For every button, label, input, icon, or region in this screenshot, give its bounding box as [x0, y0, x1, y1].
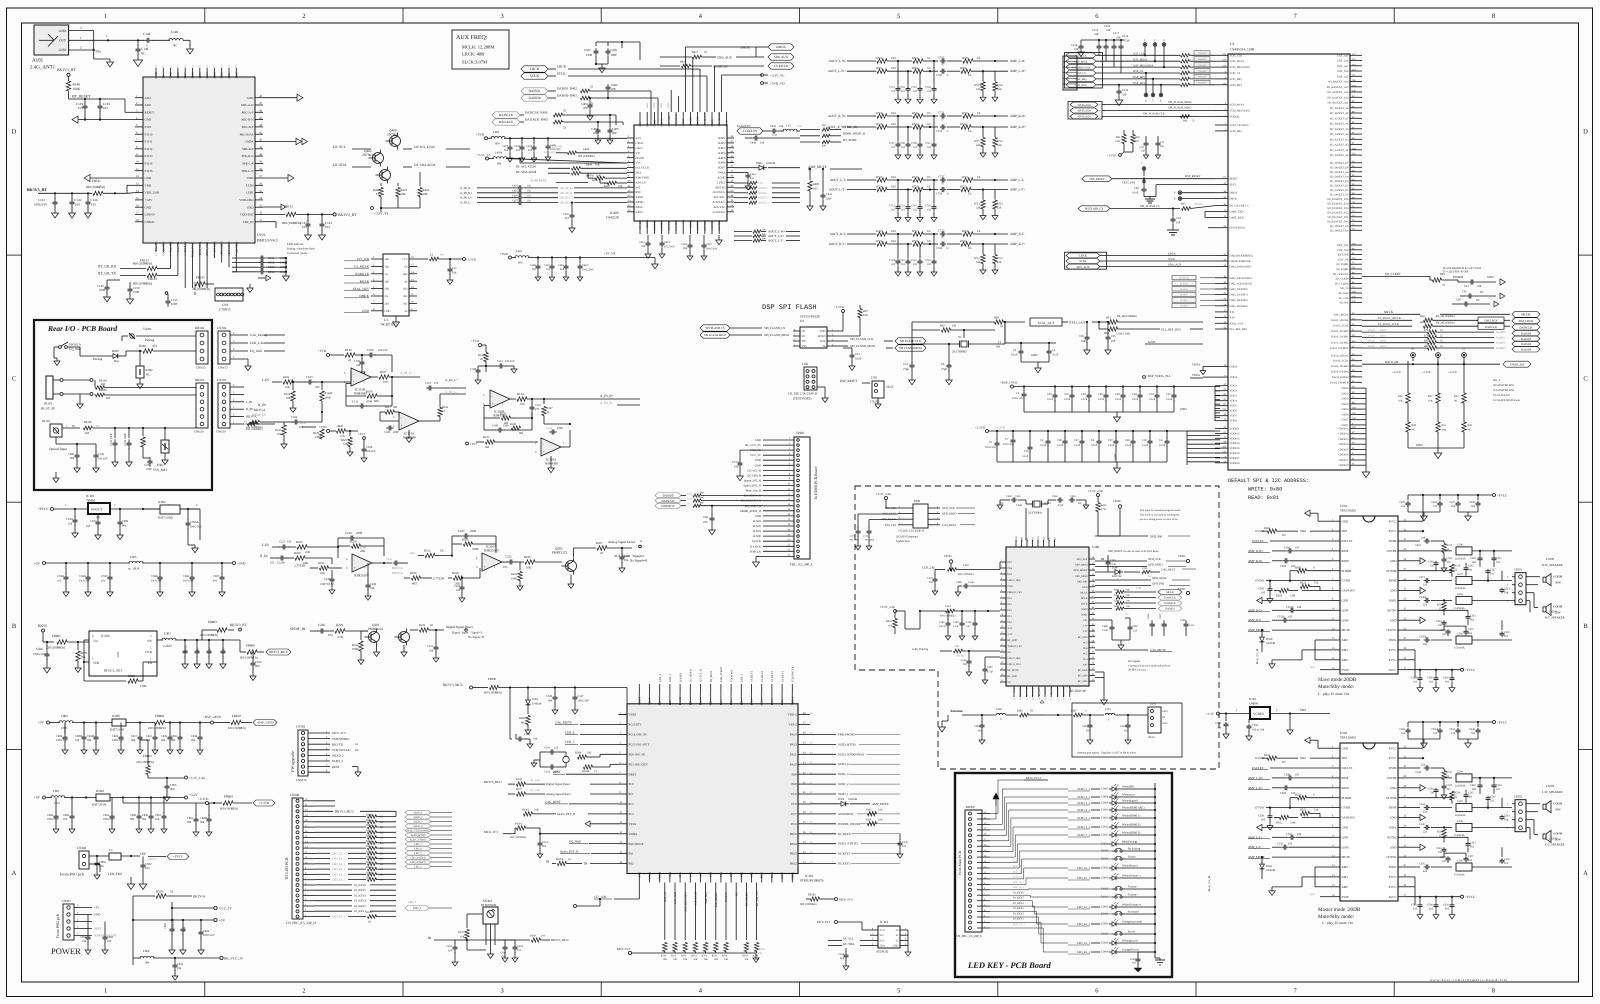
svg-text:1: 1	[104, 13, 107, 20]
svg-text:SCP1_IRQ: SCP1_IRQ	[1230, 78, 1242, 81]
svg-text:GVDO: GVDO	[1255, 579, 1265, 583]
svg-text:104: 104	[82, 940, 87, 943]
U280 bottom pins	[1013, 686, 1015, 697]
U501 OUTNL snubber	[1407, 629, 1444, 631]
resistor R232 100K	[519, 562, 521, 570]
LRCK SCLK SDO_AUX flags into U1	[1065, 252, 1107, 269]
svg-text:47P: 47P	[593, 131, 598, 135]
svg-text:R303: R303	[366, 866, 372, 869]
inductor L804	[133, 957, 141, 959]
svg-text:470P: 470P	[557, 427, 563, 430]
svg-text:R705: R705	[962, 56, 969, 60]
svg-text:904: 904	[142, 818, 147, 821]
resistor R229 4.7K	[326, 630, 334, 632]
svg-text:SDA: SDA	[636, 171, 643, 175]
capacitor C810 904	[252, 652, 254, 660]
svg-text:H-SD1: H-SD1	[1180, 294, 1188, 297]
svg-text:CX27: CX27	[101, 575, 108, 578]
svg-text:1K: 1K	[380, 879, 383, 882]
svg-text:XTAL_OUT: XTAL_OUT	[1038, 321, 1055, 325]
svg-text:BK3V-A: BK3V-A	[193, 895, 206, 899]
svg-text:102: 102	[1490, 573, 1495, 576]
connector RB101	[196, 383, 208, 428]
jumper J11	[1436, 353, 1441, 358]
resistor R68 47	[995, 320, 1004, 324]
svg-text:10: 10	[1411, 347, 1414, 351]
svg-text:SPI_FLASH_MOSI: SPI_FLASH_MOSI	[850, 344, 875, 348]
svg-text:L-IN: L-IN	[262, 378, 269, 382]
svg-text:R207: R207	[596, 541, 603, 545]
svg-text:I2C SDA: I2C SDA	[333, 163, 347, 167]
svg-text:VDD1: VDD1	[1230, 385, 1238, 388]
svg-text:C100: C100	[98, 453, 105, 456]
switch TA201 Pairing	[122, 335, 128, 337]
svg-text:AOUT_R_W-: AOUT_R_W-	[828, 114, 846, 118]
svg-text:R51: R51	[1442, 424, 1447, 427]
svg-text:C7: C7	[1005, 438, 1009, 441]
svg-text:A: A	[640, 540, 642, 543]
svg-text:50: 50	[144, 440, 147, 443]
svg-text:100M602: 100M602	[1198, 82, 1207, 85]
svg-text:CN1: CN1	[222, 303, 229, 307]
resistor R228 20K	[448, 577, 452, 579]
svg-text:33P: 33P	[1094, 32, 1099, 36]
svg-text:GND2: GND2	[1341, 392, 1349, 395]
svg-text:+5VD_VD: +5VD_VD	[548, 145, 563, 149]
svg-text:IO_KEY2: IO_KEY2	[354, 904, 366, 908]
svg-text:GNDA: GNDA	[1192, 364, 1200, 367]
svg-text:C122 100P: C122 100P	[110, 433, 113, 446]
svg-text:C542: C542	[1436, 620, 1442, 623]
capacitor C155 100P	[167, 297, 169, 301]
resistor R107 100	[371, 376, 378, 378]
svg-text:104: 104	[99, 864, 104, 868]
svg-text:100G/16V: 100G/16V	[56, 739, 68, 742]
svg-text:FB145: FB145	[196, 276, 205, 280]
svg-text:SD_D12/EXT_D12: SD_D12/EXT_D12	[1327, 211, 1349, 214]
U502 PVCC rail caps	[1407, 747, 1423, 749]
U502 pin25 gnd arrow	[1407, 817, 1420, 819]
svg-text:0.1uF: 0.1uF	[1159, 444, 1166, 447]
svg-text:470P: 470P	[393, 431, 399, 434]
svg-text:L2: L2	[430, 253, 434, 257]
capacitor C555 102 to 104	[1248, 719, 1250, 723]
svg-text:104: 104	[779, 125, 784, 128]
svg-text:L-IN: L-IN	[246, 400, 253, 404]
svg-text:10K: 10K	[1442, 429, 1447, 432]
U502 diode D 1N4148	[1261, 857, 1263, 863]
svg-text:R728: R728	[912, 239, 919, 243]
wire 78M09 out down	[199, 509, 201, 540]
svg-text:DSP_CS: DSP_CS	[1076, 72, 1086, 75]
svg-text:RA: RA	[355, 749, 359, 752]
svg-text:R718: R718	[876, 184, 883, 188]
svg-text:R503: R503	[1276, 595, 1283, 598]
capacitor C328c 104	[515, 734, 517, 739]
svg-text:NC: NC	[1480, 291, 1484, 294]
svg-text:22K: 22K	[997, 261, 1002, 264]
svg-text:U101: U101	[257, 233, 266, 237]
svg-text:AMP_R-W-: AMP_R-W-	[1010, 114, 1026, 118]
svg-text:R802: R802	[128, 674, 135, 678]
label MCLK row	[1362, 313, 1420, 315]
svg-text:DAISCLK: DAISCLK	[661, 499, 675, 503]
ferrite L140 NC	[152, 39, 170, 41]
svg-text:0.1uF: 0.1uF	[855, 357, 862, 361]
svg-text:C710: C710	[925, 142, 931, 145]
svg-text:SST25VF032B: SST25VF032B	[800, 315, 820, 319]
svg-text:SPI FLASH MOSI: SPI FLASH MOSI	[899, 346, 922, 350]
svg-text:1K: 1K	[380, 826, 383, 829]
net BK3V3_MCU at CN300	[315, 800, 335, 802]
resistor R409 1K5	[809, 169, 811, 180]
resistor R134 100	[510, 398, 516, 400]
svg-text:GND: GND	[1342, 599, 1349, 603]
svg-text:100L/350V: 100L/350V	[582, 269, 594, 272]
svg-text:102: 102	[891, 209, 896, 212]
U1 EXT_A pins	[1350, 54, 1362, 56]
svg-text:R704: R704	[912, 66, 919, 70]
transistor Q400 2N7002	[390, 136, 401, 147]
svg-text:904: 904	[1445, 681, 1450, 684]
svg-text:2.2UH: 2.2UH	[163, 644, 172, 648]
resistor R361 10K	[868, 812, 877, 816]
svg-text:BT_UR_RX: BT_UR_RX	[98, 265, 117, 269]
connector CN102 with nets	[218, 331, 230, 364]
svg-text:A: A	[1583, 870, 1588, 877]
svg-text:C142: C142	[75, 198, 82, 202]
svg-text:C12: C12	[1160, 141, 1165, 144]
svg-text:4.7K: 4.7K	[337, 635, 344, 639]
svg-text:CN302: CN302	[296, 725, 306, 729]
capacitor C813 104	[208, 640, 210, 648]
svg-text:1K: 1K	[927, 56, 931, 60]
svg-text:600: 600	[700, 502, 705, 505]
svg-text:104: 104	[624, 559, 629, 562]
svg-text:C1: C1	[989, 441, 993, 444]
U501 PLIMIT row	[1298, 569, 1307, 573]
svg-text:15UH/4A: 15UH/4A	[1454, 607, 1465, 610]
net +2V7	[363, 437, 366, 440]
svg-text:LED_3A_1: LED_3A_1	[332, 873, 346, 876]
wire JK102 gnd	[55, 437, 57, 444]
capacitor C234 220P	[348, 537, 351, 539]
svg-text:5: 5	[346, 567, 348, 570]
svg-text:P160: P160	[234, 72, 238, 79]
capacitor C328b 904	[554, 688, 556, 695]
svg-text:C2: C2	[1040, 439, 1044, 442]
svg-text:DSD0: DSD0	[1380, 329, 1387, 332]
svg-text:+PVCC: +PVCC	[1497, 494, 1507, 498]
svg-text:ADCIN1: ADCIN1	[689, 116, 692, 126]
svg-text:CS_MCLK: CS_MCLK	[713, 65, 728, 69]
U502 speaker 2 LS502	[1526, 819, 1534, 821]
svg-text:R720: R720	[912, 184, 919, 188]
svg-text:R83: R83	[1440, 272, 1445, 276]
svg-text:102: 102	[1496, 561, 1501, 564]
svg-text:105: 105	[270, 561, 275, 565]
svg-text:BSPR: BSPR	[1389, 539, 1396, 543]
svg-text:3: 3	[500, 13, 503, 20]
svg-text:H-SD2: H-SD2	[1180, 299, 1188, 302]
svg-text:SD_A0/EXT_A0: SD_A0/EXT_A0	[1330, 154, 1349, 157]
capacitor C92 X3P	[1086, 322, 1088, 334]
svg-text:33: 33	[1440, 340, 1443, 343]
svg-text:R83: R83	[1104, 331, 1109, 335]
svg-text:230 (100MHz): 230 (100MHz)	[136, 760, 154, 764]
svg-text:102: 102	[913, 263, 918, 266]
svg-text:1K: 1K	[380, 842, 383, 845]
svg-text:10u: 10u	[527, 199, 532, 202]
resistor R129 100K	[302, 426, 316, 428]
svg-text:RESET: RESET	[1230, 178, 1239, 181]
capacitor C421 220P	[822, 169, 824, 192]
svg-text:GND: GND	[755, 438, 761, 442]
capacitor C432 104	[770, 130, 773, 132]
svg-text:10: 10	[170, 890, 174, 894]
svg-text:GND: GND	[94, 913, 101, 917]
svg-text:FB_2K(100MHz): FB_2K(100MHz)	[1436, 322, 1455, 325]
svg-text:D500: D500	[1266, 638, 1273, 641]
svg-text:BT_RESET: BT_RESET	[72, 95, 91, 99]
resistor R120 10K	[276, 421, 281, 423]
svg-text:C104: C104	[291, 416, 298, 419]
svg-text:1K5: 1K5	[891, 122, 897, 126]
svg-text:684: 684	[196, 648, 200, 653]
capacitor C123 100P	[128, 428, 130, 438]
capacitor C104b 225	[284, 421, 294, 423]
svg-text:C545: C545	[1468, 565, 1474, 568]
svg-text:+3.3V_VL: +3.3V_VL	[770, 74, 784, 78]
svg-text:C10: C10	[1024, 450, 1029, 453]
svg-text:SCL/CCLK: SCL/CCLK	[636, 166, 651, 170]
svg-text:104: 104	[183, 926, 186, 931]
diode D280 BAT746	[1095, 571, 1112, 573]
svg-text:DBCK: DBCK	[1230, 198, 1238, 201]
capacitor C439 904	[571, 203, 573, 212]
svg-text:RXP2: RXP2	[718, 141, 726, 145]
pullup resistors MCU bottom	[663, 943, 667, 952]
svg-text:0.1uF: 0.1uF	[1132, 192, 1139, 195]
svg-text:BK3V3_MCU: BK3V3_MCU	[269, 650, 288, 654]
svg-text:2N7002: 2N7002	[362, 153, 373, 157]
svg-text:100K: 100K	[73, 87, 81, 91]
svg-text:C432: C432	[770, 125, 777, 128]
U502 cap C543	[1501, 798, 1503, 808]
svg-text:EXT_A18: EXT_A18	[1337, 60, 1349, 63]
svg-text:R132: R132	[478, 354, 485, 357]
svg-text:+5V: +5V	[34, 796, 41, 800]
svg-text:RT1611_ADJ: RT1611_ADJ	[104, 669, 122, 673]
diode IC804 BAT721	[160, 505, 180, 514]
svg-text:DAO2_SCLK: DAO2_SCLK	[1333, 360, 1348, 363]
svg-text:100K: 100K	[315, 436, 321, 439]
svg-text:C801: C801	[80, 936, 87, 939]
U502 pin28 gnd arrow	[1407, 787, 1420, 789]
AOUT left ferrite rows	[734, 231, 752, 233]
svg-text:C806: C806	[164, 922, 167, 929]
svg-text:100G/16V: 100G/16V	[544, 151, 555, 154]
svg-text:CX31: CX31	[90, 520, 97, 523]
svg-text:2N7002: 2N7002	[387, 133, 398, 137]
U1 SCP1 pins	[1215, 54, 1228, 56]
svg-text:AOUT1-: AOUT1-	[758, 192, 768, 195]
ground pair CN304	[127, 884, 135, 890]
svg-text:C110: C110	[535, 404, 542, 407]
svg-text:AOUTB2-: AOUTB2-	[697, 219, 700, 230]
ground under C148	[133, 60, 142, 67]
svg-text:684: 684	[1472, 561, 1477, 564]
svg-text:R727: R727	[912, 229, 919, 233]
svg-text:COAX IN: COAX IN	[737, 124, 751, 128]
capacitor C806 100uF/16V	[171, 908, 173, 926]
svg-text:R229: R229	[336, 623, 343, 627]
capacitors +5VD rail right	[159, 563, 161, 574]
svg-text:102: 102	[891, 90, 896, 93]
svg-text:5: 5	[1152, 99, 1154, 103]
svg-text:CN300: CN300	[290, 793, 300, 797]
capacitor C292 NC	[981, 715, 983, 722]
svg-text:470P: 470P	[366, 400, 373, 404]
NC capacitors C295 C297 C296	[1151, 620, 1153, 624]
capacitor C404 47P	[597, 127, 599, 130]
svg-text:C518: C518	[1415, 544, 1421, 547]
capacitor C288 0.1uF	[958, 585, 962, 587]
svg-text:+5VD: +5VD	[319, 425, 327, 429]
svg-text:SCLK: SCLK	[1168, 257, 1176, 261]
inductor L1 600	[1004, 322, 1006, 343]
svg-text:No Signal=H: No Signal=H	[630, 559, 648, 563]
capacitors C151-C154 100P	[232, 257, 258, 259]
svg-text:AD1/CS-: AD1/CS-	[636, 180, 647, 184]
svg-text:VD: VD	[636, 151, 640, 155]
svg-text:CN302: CN302	[62, 899, 71, 903]
svg-text:C8: C8	[941, 362, 945, 366]
svg-text:L506: L506	[1457, 593, 1463, 596]
resistor R360 10K	[868, 821, 877, 825]
svg-text:NJM4580: NJM4580	[403, 436, 416, 440]
svg-text:C802: C802	[107, 936, 114, 939]
svg-text:104: 104	[452, 271, 457, 275]
svg-text:C32: C32	[1149, 393, 1154, 396]
svg-text:SD_CAS: SD_CAS	[1338, 297, 1349, 300]
U502 cap C539	[1501, 847, 1503, 857]
svg-text:22K: 22K	[360, 549, 366, 553]
svg-text:PVCC: PVCC	[1389, 658, 1397, 662]
svg-text:MISO: MISO	[1099, 110, 1105, 113]
U502 left pins	[1331, 747, 1340, 749]
svg-text:C229: C229	[624, 555, 631, 558]
svg-text:2.7VDD: 2.7VDD	[294, 564, 306, 568]
diode D5B1 1N4148	[734, 167, 756, 169]
svg-text:L301: L301	[164, 632, 171, 636]
svg-text:Pairing: Pairing	[93, 357, 103, 361]
svg-text:OUTNL: OUTNL	[1386, 628, 1396, 632]
svg-text:XTAL_OUT: XTAL_OUT	[1069, 321, 1086, 325]
svg-text:R233: R233	[524, 555, 531, 559]
svg-text:R703: R703	[912, 56, 919, 60]
U280 top pins	[1015, 540, 1017, 547]
svg-text:Optical Input: Optical Input	[49, 447, 67, 451]
IC LM809 VCRES reset	[1250, 707, 1270, 719]
svg-text:100K: 100K	[511, 578, 517, 581]
resistor R423 10K	[397, 183, 399, 186]
+3.3VD decoupling rail C1-C6	[986, 430, 989, 433]
svg-text:P166: P166	[191, 72, 195, 79]
svg-text:SLED_4: SLED_4	[332, 759, 343, 763]
svg-text:1K5: 1K5	[891, 239, 897, 243]
resistor R223 22K	[297, 545, 307, 549]
svg-text:C480: C480	[68, 453, 75, 456]
resistor R220 22K	[295, 556, 305, 560]
svg-text:C537: C537	[1468, 628, 1474, 631]
svg-text:GND6: GND6	[1341, 408, 1349, 411]
svg-text:3: 3	[233, 340, 235, 343]
svg-text:600 (100MHz): 600 (100MHz)	[86, 185, 105, 189]
svg-text:U1_DAO1_SCLK: U1_DAO1_SCLK	[1378, 323, 1399, 326]
svg-text:1N4148: 1N4148	[1266, 642, 1276, 645]
UART stub rows	[1205, 211, 1215, 213]
svg-text:330: 330	[1430, 565, 1435, 568]
capacitor C303c 104	[504, 940, 506, 944]
svg-text:904: 904	[187, 821, 192, 824]
svg-text:R212: R212	[424, 549, 431, 553]
capacitor C410 100G/10V	[703, 235, 705, 242]
svg-text:L508: L508	[1457, 543, 1463, 546]
svg-text:CX28: CX28	[57, 575, 64, 578]
svg-text:+3.3VD: +3.3VD	[466, 258, 477, 262]
svg-text:IC300: IC300	[101, 634, 110, 638]
svg-text:C105: C105	[354, 360, 361, 363]
connector CN304	[79, 851, 89, 869]
svg-text:1K: 1K	[977, 56, 981, 60]
resistor R91 FB_2K	[1109, 320, 1118, 324]
U1 uart pins	[1215, 205, 1228, 207]
net BK_VCC_3V	[220, 956, 223, 959]
svg-text:SD_D14/EXT_D14: SD_D14/EXT_D14	[1327, 202, 1349, 205]
svg-text:100G/16V: 100G/16V	[112, 739, 124, 742]
svg-text:BK3V3_BT: BK3V3_BT	[338, 213, 357, 217]
svg-text:470: 470	[152, 344, 157, 348]
svg-text:102: 102	[927, 90, 932, 93]
svg-text:DBDA: DBDA	[1230, 192, 1238, 195]
svg-text:FB802: FB802	[143, 754, 152, 758]
svg-text:L801: L801	[53, 789, 60, 793]
MCU bottom net columns	[664, 883, 666, 941]
net flag CS MCLK	[768, 63, 794, 69]
svg-text:5: 5	[344, 372, 346, 375]
svg-text:HOLD: HOLD	[818, 335, 826, 338]
svg-text:103/16V: 103/16V	[505, 360, 515, 363]
svg-text:FB810: FB810	[232, 714, 241, 718]
svg-text:POWER: POWER	[51, 946, 81, 956]
capacitor C111 470P	[345, 396, 347, 406]
capacitor C144	[143, 39, 147, 41]
svg-text:104: 104	[75, 739, 80, 742]
svg-text:AOUT_L-W+: AOUT_L-W+	[768, 230, 785, 234]
capacitor C108	[478, 365, 486, 367]
svg-text:VCC22: VCC22	[732, 461, 741, 464]
svg-text:600 (100MHz): 600 (100MHz)	[578, 155, 595, 158]
svg-text:A_IN_R+: A_IN_R+	[600, 394, 614, 398]
svg-text:R304: R304	[366, 871, 372, 874]
svg-text:DSP_RESET: DSP_RESET	[1185, 174, 1201, 178]
svg-text:0: 0	[1313, 567, 1315, 570]
net LED_1A_1 R305	[315, 916, 330, 918]
svg-text:SPI FLASH: SPI FLASH	[1077, 110, 1090, 113]
connector RB102	[196, 331, 208, 364]
U501 diode D 1N4148	[1261, 630, 1263, 636]
